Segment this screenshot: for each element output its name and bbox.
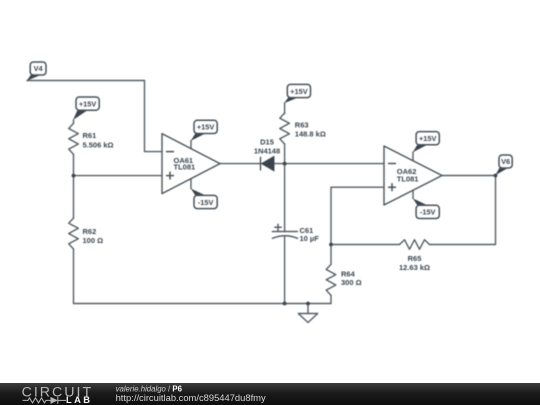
supply stub OA61 +15V bbox=[190, 141, 192, 149]
svg-text:12.63 kΩ: 12.63 kΩ bbox=[399, 263, 430, 272]
svg-text:1N4148: 1N4148 bbox=[254, 146, 280, 155]
svg-text:V4: V4 bbox=[34, 64, 44, 73]
resistor R64 bbox=[326, 264, 336, 295]
wire R61 to junction to R62 bbox=[73, 154, 75, 218]
wire node to C61 bbox=[284, 164, 286, 232]
svg-text:100 Ω: 100 Ω bbox=[83, 236, 104, 245]
op-amp OA61 bbox=[162, 134, 220, 194]
wire R64 bottom bbox=[330, 295, 332, 303]
wire R63 top stub bbox=[284, 103, 286, 114]
svg-text:+15V: +15V bbox=[79, 99, 97, 108]
wire bottom rail bbox=[74, 303, 332, 305]
svg-text:-15V: -15V bbox=[198, 198, 214, 207]
flag V6 bbox=[495, 155, 512, 175]
svg-text:R63: R63 bbox=[295, 120, 309, 129]
node OA61 plus / R61-R62 bbox=[72, 174, 76, 178]
wire V4 to OA61 minus input bbox=[27, 81, 162, 152]
ground bbox=[298, 314, 317, 323]
node diode / R63 / C61 bbox=[283, 162, 287, 166]
resistor R63 bbox=[280, 113, 290, 144]
flag +15V (R61) bbox=[73, 97, 99, 120]
flag V4 bbox=[27, 62, 46, 81]
logo diode doodle bbox=[51, 397, 58, 404]
svg-text:V6: V6 bbox=[501, 157, 510, 166]
footer bar bbox=[0, 383, 540, 405]
wire OA62 output bbox=[442, 175, 496, 177]
svg-text:R61: R61 bbox=[83, 131, 97, 140]
svg-text:R65: R65 bbox=[408, 254, 422, 263]
resistor R65 bbox=[400, 240, 430, 250]
svg-text:5.506 kΩ: 5.506 kΩ bbox=[83, 140, 114, 149]
wire OA61 output to diode bbox=[220, 163, 261, 165]
ground stub bbox=[307, 304, 309, 314]
supply stub OA61 -15V bbox=[190, 179, 192, 189]
flag -15V (OA62) bbox=[413, 198, 440, 218]
wire C61 to bottom rail bbox=[284, 237, 286, 304]
logo wire doodle bbox=[23, 397, 66, 404]
svg-text:LAB: LAB bbox=[66, 394, 92, 405]
wire R64 top to junction bbox=[330, 245, 332, 265]
flag -15V (OA61) bbox=[191, 189, 217, 209]
svg-text:D15: D15 bbox=[260, 138, 274, 147]
node ground tap bbox=[306, 302, 310, 306]
wire diode to OA62 minus input bbox=[274, 163, 384, 165]
supply stub OA62 +15V bbox=[412, 152, 414, 161]
wire junction to R65 bbox=[331, 244, 400, 246]
flag +15V (OA61) bbox=[191, 120, 217, 141]
resistor R62 bbox=[69, 218, 79, 249]
capacitor C61 bbox=[272, 224, 297, 238]
svg-text:+15V: +15V bbox=[197, 123, 215, 132]
svg-text:300 Ω: 300 Ω bbox=[341, 278, 362, 287]
svg-text:R62: R62 bbox=[83, 227, 97, 236]
svg-text:148.8 kΩ: 148.8 kΩ bbox=[295, 129, 326, 138]
wire R63 to node bbox=[284, 144, 286, 164]
svg-text:+15V: +15V bbox=[419, 134, 437, 143]
op-amp OA62 bbox=[384, 146, 442, 205]
supply stub OA62 -15V bbox=[412, 190, 414, 198]
resistor R61 bbox=[69, 123, 79, 154]
wire OA62 plus input bbox=[331, 187, 384, 244]
wire R62 to bottom rail bbox=[73, 249, 75, 304]
svg-text:+15V: +15V bbox=[290, 87, 308, 96]
flag +15V (R63) bbox=[284, 84, 311, 103]
wire R65 to V6 corner bbox=[430, 176, 496, 245]
svg-text:TL081: TL081 bbox=[174, 163, 196, 172]
diode D15 bbox=[261, 157, 274, 171]
flag +15V (OA62) bbox=[413, 132, 440, 153]
node V6 bbox=[494, 174, 498, 178]
svg-text:TL081: TL081 bbox=[397, 174, 419, 183]
node C61 / bottom rail bbox=[283, 302, 287, 306]
svg-text:10 µF: 10 µF bbox=[300, 234, 320, 243]
svg-text:-15V: -15V bbox=[420, 208, 436, 217]
wire R61 top stub bbox=[73, 120, 75, 124]
svg-text:http://circuitlab.com/c895447d: http://circuitlab.com/c895447du8fmy bbox=[116, 392, 266, 403]
wire plus input OA61 bbox=[74, 175, 163, 177]
node R64 / R65 / plus input bbox=[329, 243, 333, 247]
